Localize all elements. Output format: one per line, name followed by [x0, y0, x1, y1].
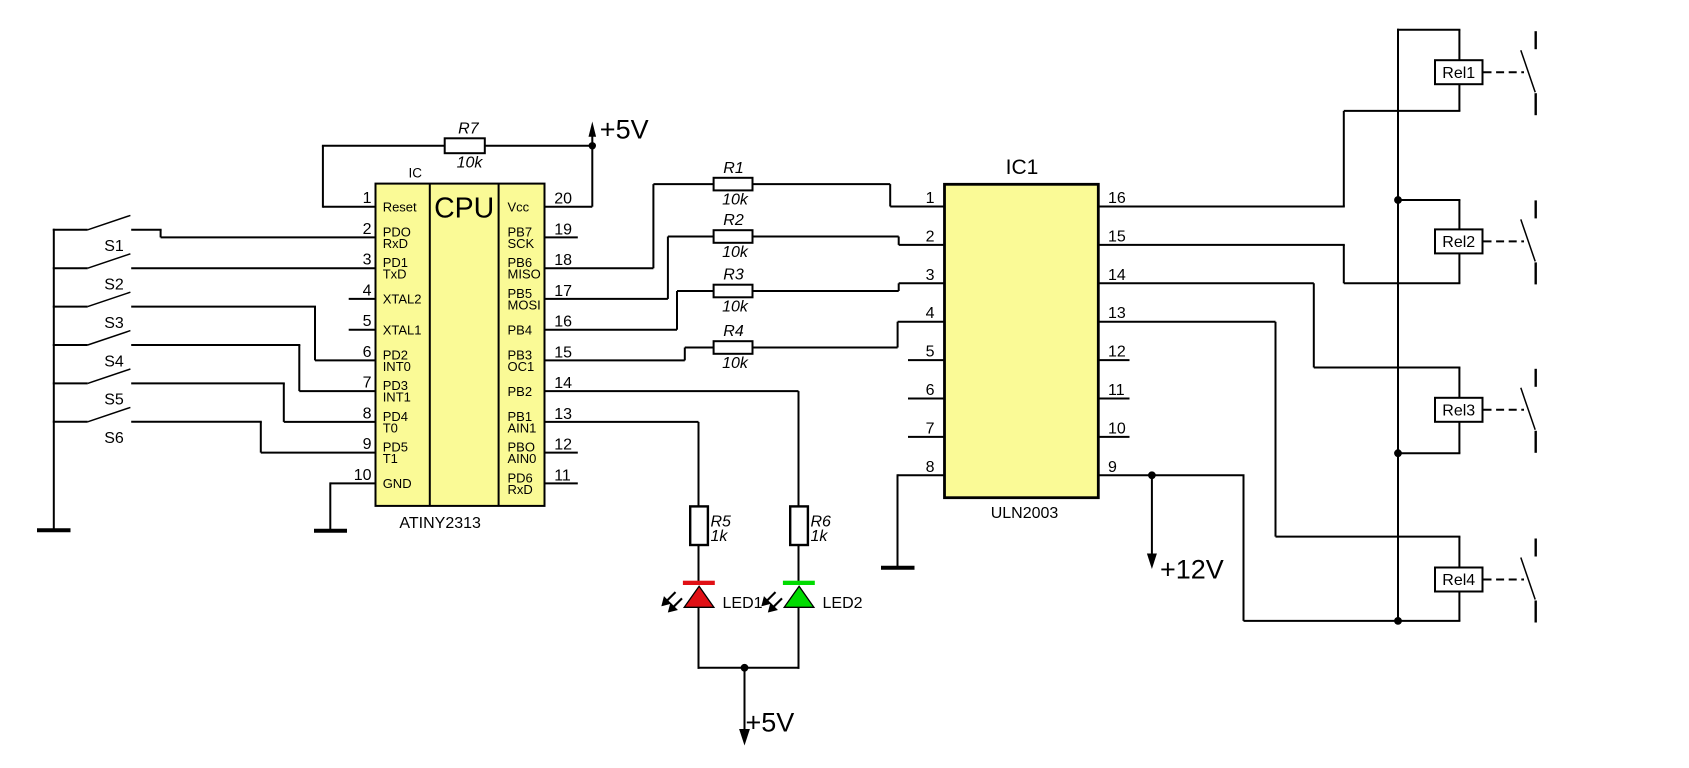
- svg-text:S1: S1: [104, 238, 124, 255]
- CPU pin 5 (XTAL1): [349, 313, 422, 337]
- svg-text:ULN2003: ULN2003: [991, 505, 1059, 522]
- svg-text:Rel3: Rel3: [1442, 403, 1475, 420]
- svg-text:11: 11: [554, 467, 571, 484]
- svg-text:12: 12: [1108, 344, 1126, 361]
- wire S1 to CPU pin: [131, 230, 376, 238]
- switch S6: [53, 407, 131, 447]
- svg-text:AIN1: AIN1: [508, 420, 537, 435]
- relay contact switch for Rel3: [1484, 369, 1536, 453]
- CPU pin 8 (PD4/T0): [363, 405, 408, 435]
- svg-text:1k: 1k: [711, 528, 729, 545]
- IC1 pin 1: [926, 190, 935, 207]
- svg-text:8: 8: [926, 459, 935, 476]
- svg-text:LED1: LED1: [723, 595, 763, 612]
- svg-text:11: 11: [1108, 382, 1125, 399]
- svg-text:T0: T0: [383, 420, 398, 435]
- svg-text:R7: R7: [458, 120, 480, 137]
- relay contact switch for Rel1: [1484, 31, 1536, 115]
- svg-text:AIN0: AIN0: [508, 451, 537, 466]
- IC1 pin 7: [908, 420, 946, 437]
- CPU pin 11 (PD6/RxD): [508, 467, 578, 496]
- wire R2 to IC1: [753, 237, 946, 245]
- ground (left bus ground symbol): [37, 528, 71, 532]
- IC1 pin 2: [926, 228, 935, 245]
- wire S3 to CPU pin: [131, 307, 376, 361]
- relay contact switch for Rel4: [1484, 539, 1536, 623]
- wire left switch bus vertical: [53, 229, 55, 531]
- wire CPU to R4 left: [544, 348, 714, 361]
- svg-text:13: 13: [554, 406, 572, 423]
- svg-text:LED2: LED2: [823, 595, 863, 612]
- relay coil Rel4: [1435, 568, 1483, 592]
- svg-text:7: 7: [926, 420, 935, 437]
- svg-text:3: 3: [363, 252, 372, 269]
- svg-text:XTAL1: XTAL1: [383, 323, 422, 338]
- svg-text:17: 17: [554, 283, 572, 300]
- svg-text:15: 15: [554, 344, 572, 361]
- CPU pin 12 (PBO/AIN0): [508, 437, 578, 466]
- svg-text:4: 4: [926, 305, 935, 322]
- CPU pin 20 (Vcc): [508, 191, 573, 215]
- wire R4 to IC1: [753, 322, 946, 348]
- wire IC1 pin 9 to +12V node: [1097, 474, 1244, 476]
- svg-text:S3: S3: [104, 315, 124, 332]
- svg-text:S5: S5: [104, 392, 124, 409]
- svg-text:R2: R2: [723, 212, 744, 229]
- resistor R4 10k: [714, 323, 753, 372]
- node junction dot +5V top: [589, 142, 596, 149]
- svg-text:16: 16: [554, 314, 572, 331]
- IC1 pin 4: [926, 305, 935, 322]
- switch S5: [53, 369, 131, 409]
- resistor R7: [445, 120, 485, 171]
- svg-text:6: 6: [363, 344, 372, 361]
- CPU pin 9 (PD5/T1): [363, 436, 408, 466]
- resistor R1 10k: [714, 160, 753, 209]
- relay coil Rel1: [1435, 60, 1483, 84]
- IC CPU ATINY2313 body: [376, 184, 545, 506]
- wire R3 to IC1: [753, 283, 946, 291]
- wire R to LED1: [698, 545, 700, 581]
- CPU pin 6 (PD2/INT0): [363, 344, 411, 374]
- switch S4: [53, 331, 131, 371]
- svg-text:10k: 10k: [722, 299, 749, 316]
- svg-text:OC1: OC1: [508, 359, 535, 374]
- wire Rel4 bottom / IC1 pin 9 riser: [1244, 475, 1461, 621]
- svg-text:6: 6: [926, 382, 935, 399]
- wire bus to Rel2 top: [1398, 200, 1460, 229]
- wire LED common bottom: [698, 667, 800, 669]
- svg-text:1k: 1k: [811, 528, 829, 545]
- svg-text:ATINY2313: ATINY2313: [399, 515, 481, 532]
- IC1 pin 15: [1108, 228, 1126, 245]
- wire Rel2 bottom to IC1 pin 15: [1097, 245, 1460, 283]
- svg-text:CPU: CPU: [434, 192, 494, 224]
- switch S1: [53, 215, 131, 255]
- ground IC1 pin 8 symbol: [881, 474, 915, 567]
- wire S4 to CPU pin: [131, 345, 376, 391]
- CPU pin 15 (PB3/OC1): [508, 344, 573, 373]
- CPU pin 3 (PD1/TxD): [363, 252, 408, 282]
- svg-text:10: 10: [1108, 420, 1126, 437]
- switch S3: [53, 292, 131, 332]
- svg-text:18: 18: [554, 252, 572, 269]
- ground CPU pin10 GND symbol: [314, 482, 347, 530]
- svg-text:9: 9: [1108, 459, 1117, 476]
- CPU pin 13 (PB1/AIN1): [508, 406, 573, 435]
- svg-text:IC1: IC1: [1006, 156, 1039, 179]
- svg-text:13: 13: [1108, 305, 1126, 322]
- svg-text:INT0: INT0: [383, 359, 411, 374]
- node junction dot bus Rel3: [1394, 449, 1402, 457]
- IC1 pin 13: [1108, 305, 1126, 322]
- svg-text:MISO: MISO: [508, 267, 541, 282]
- svg-text:XTAL2: XTAL2: [383, 292, 422, 307]
- svg-text:16: 16: [1108, 190, 1126, 207]
- svg-text:1: 1: [926, 190, 935, 207]
- power +12V arrow: [1147, 475, 1157, 569]
- svg-text:10k: 10k: [722, 192, 749, 209]
- IC1 pin 10: [1097, 420, 1129, 437]
- svg-text:S4: S4: [104, 353, 124, 370]
- svg-text:8: 8: [363, 405, 372, 422]
- svg-text:5: 5: [926, 344, 935, 361]
- wire R to LED2: [798, 545, 800, 581]
- wire S2 to CPU pin: [131, 267, 376, 269]
- svg-text:Rel1: Rel1: [1442, 65, 1475, 82]
- CPU pin 17 (PB5/MOSI): [508, 283, 573, 312]
- svg-text:10k: 10k: [722, 355, 749, 372]
- wire CPU pin1 reset loop to R7: [322, 146, 445, 208]
- wire CPU to R2 left: [544, 237, 714, 299]
- CPU pin 1 (Reset): [363, 190, 417, 214]
- node junction dot pin9 +12V: [1148, 471, 1156, 479]
- wire R1 to IC1: [753, 184, 946, 206]
- wire CPU pin 14 to R6: [544, 391, 799, 506]
- IC1 pin 8: [898, 459, 946, 476]
- svg-text:2: 2: [926, 228, 935, 245]
- node junction dot bus Rel2: [1394, 196, 1402, 204]
- svg-text:RxD: RxD: [383, 236, 408, 251]
- svg-text:14: 14: [1108, 267, 1126, 284]
- CPU pin 18 (PB6/MISO): [508, 252, 573, 281]
- wire +12V relay bus vertical: [1397, 29, 1399, 621]
- svg-text:Rel4: Rel4: [1442, 572, 1475, 589]
- IC1 pin 3: [926, 267, 935, 284]
- LED LED2: [763, 581, 863, 612]
- switch S2: [53, 254, 131, 294]
- wire IC1 pin 13 to Rel4 top: [1097, 322, 1460, 568]
- resistor R3 10k: [714, 267, 753, 316]
- svg-text:5: 5: [363, 313, 372, 330]
- svg-text:12: 12: [554, 437, 572, 454]
- wire CPU to R3 left: [544, 291, 714, 330]
- IC1 pin 6: [908, 382, 946, 399]
- svg-text:15: 15: [1108, 228, 1126, 245]
- wire S5 to CPU pin: [131, 383, 376, 422]
- svg-text:IC: IC: [409, 165, 423, 180]
- wire S6 to CPU pin: [131, 422, 376, 453]
- node junction dot LED common: [741, 664, 749, 672]
- svg-text:+12V: +12V: [1160, 554, 1224, 584]
- power +5V bottom arrow: [739, 668, 750, 746]
- IC1 pin 5: [908, 344, 946, 361]
- svg-text:9: 9: [363, 436, 372, 453]
- wire LED1 to +5V rail: [698, 607, 700, 669]
- svg-text:S2: S2: [104, 277, 124, 294]
- svg-text:R3: R3: [723, 267, 744, 284]
- CPU pin 16 (PB4): [508, 314, 573, 338]
- svg-text:SCK: SCK: [508, 236, 535, 251]
- svg-text:Vcc: Vcc: [508, 200, 530, 215]
- svg-text:19: 19: [554, 221, 572, 238]
- CPU pin 14 (PB2): [508, 375, 573, 399]
- wire +5V node to CPU pin 20 Vcc: [544, 145, 593, 207]
- CPU pin 7 (PD3/INT1): [363, 375, 411, 405]
- svg-text:14: 14: [554, 375, 572, 392]
- svg-text:10: 10: [354, 467, 372, 484]
- IC IC1 ULN2003 body: [945, 184, 1099, 497]
- svg-text:R4: R4: [723, 323, 744, 340]
- svg-text:20: 20: [554, 191, 572, 208]
- svg-text:TxD: TxD: [383, 267, 407, 282]
- IC1 pin 16: [1108, 190, 1126, 207]
- CPU pin 4 (XTAL2): [349, 282, 422, 306]
- relay coil Rel2: [1435, 229, 1483, 253]
- wire IC1 pin 14 to Rel3 top: [1097, 283, 1460, 398]
- svg-text:PB2: PB2: [508, 384, 533, 399]
- IC1 pin 14: [1108, 267, 1126, 284]
- svg-text:PB4: PB4: [508, 323, 533, 338]
- wire Rel1 bottom to IC1 pin 16: [1097, 84, 1460, 206]
- svg-text:INT1: INT1: [383, 390, 411, 405]
- IC1 pin 11: [1097, 382, 1129, 399]
- svg-text:10k: 10k: [457, 154, 484, 171]
- resistor R5 1k: [690, 506, 731, 545]
- CPU pin 19 (PB7/SCK): [508, 221, 578, 250]
- power +5V top arrow: [589, 122, 597, 146]
- CPU pin 10 (GND): [330, 467, 411, 491]
- IC1 pin 9: [1108, 459, 1117, 476]
- svg-text:Reset: Reset: [383, 200, 417, 215]
- svg-text:10k: 10k: [722, 244, 749, 261]
- relay contact switch for Rel2: [1484, 200, 1536, 284]
- wire LED2 to +5V rail: [798, 607, 800, 669]
- svg-text:4: 4: [363, 282, 372, 299]
- svg-text:S6: S6: [104, 430, 124, 447]
- svg-text:+5V: +5V: [746, 707, 795, 737]
- svg-text:RxD: RxD: [508, 482, 533, 497]
- wire Rel3 bottom to bus: [1398, 422, 1460, 453]
- svg-text:7: 7: [363, 375, 372, 392]
- svg-text:GND: GND: [383, 476, 412, 491]
- wire bus to Rel1 top: [1397, 30, 1460, 61]
- wire CPU pin 13 to R5: [544, 422, 699, 507]
- relay coil Rel3: [1435, 398, 1483, 422]
- IC1 pin 12: [1097, 344, 1129, 361]
- resistor R2 10k: [714, 212, 753, 261]
- svg-text:T1: T1: [383, 451, 398, 466]
- node junction dot bus Rel4/pin9: [1394, 617, 1402, 625]
- svg-text:3: 3: [926, 267, 935, 284]
- LED LED1: [663, 581, 763, 612]
- resistor R6 1k: [790, 506, 831, 545]
- svg-text:2: 2: [363, 221, 372, 238]
- svg-text:Rel2: Rel2: [1442, 234, 1475, 251]
- svg-text:MOSI: MOSI: [508, 297, 541, 312]
- svg-text:R1: R1: [723, 160, 743, 177]
- CPU pin 2 (PDO/RxD): [363, 221, 411, 251]
- svg-text:+5V: +5V: [600, 114, 649, 144]
- wire CPU to R1 left: [544, 184, 714, 268]
- wire R7 to +5V node: [485, 145, 593, 147]
- svg-text:1: 1: [363, 190, 372, 207]
